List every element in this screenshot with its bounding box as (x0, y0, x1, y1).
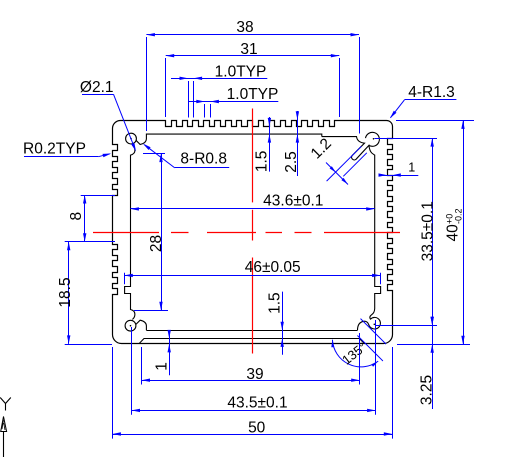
Y axis arrow (1, 417, 7, 432)
dimension 1.2 (diagonal slot width) (308, 135, 367, 184)
profile bottom inner floor line with corner chamfers (139, 339, 364, 344)
dimension 28 (134, 154, 168, 311)
screw boss hole top-right center mark (373, 138, 375, 140)
dimension 43.5±0.1 (hole centers) (132, 320, 376, 415)
dimension 1.5 (bottom platform) (267, 292, 284, 355)
Y axis stem (3, 432, 5, 457)
dimension 135° (chamfer angle) (331, 319, 386, 368)
dimension 38 (top) (146, 19, 359, 133)
svg-text:4-R1.3: 4-R1.3 (408, 84, 455, 101)
svg-text:39: 39 (246, 366, 263, 383)
svg-text:8-R0.8: 8-R0.8 (180, 151, 227, 168)
svg-text:1.0TYP: 1.0TYP (227, 86, 279, 103)
svg-text:-0.2: -0.2 (454, 208, 464, 224)
dimension 1 (right groove depth) (379, 161, 419, 177)
screw boss hole bottom-right center mark (374, 324, 376, 326)
profile bottom-left boss mouth lip and platform connection (136, 320, 147, 330)
profile bottom platform (PCB land) line (146, 330, 357, 332)
svg-text:18.5: 18.5 (57, 277, 74, 307)
dimension 18.5 (left lower) (57, 242, 112, 345)
screw boss hole bottom-left (125, 320, 136, 331)
dimension 1.5 (top wall) (254, 117, 272, 172)
dimension 43.6±0.1 (inner width) (130, 193, 374, 211)
top-right boss outline arc (366, 132, 380, 146)
svg-text:3.25: 3.25 (418, 375, 435, 405)
svg-text:43.5±0.1: 43.5±0.1 (227, 395, 287, 412)
label diameter 2.1 with leader to boss hole (80, 79, 136, 152)
dimension 46±0.05 (slot width) (124, 259, 380, 284)
profile bottom-right boss hook from platform (358, 321, 373, 330)
svg-text:40: 40 (445, 224, 462, 242)
svg-text:1.0TYP: 1.0TYP (215, 64, 267, 81)
dimension 39 (142, 333, 360, 385)
dimension 31 (166, 41, 340, 117)
svg-text:8: 8 (68, 212, 85, 221)
dimension 33.5±0.1 (right groove band) (375, 138, 438, 325)
svg-text:46±0.05: 46±0.05 (245, 259, 301, 276)
dimension 1.0TYP (groove width) (171, 64, 267, 118)
label 4-R1.3 with leader to top-right corner (390, 84, 457, 118)
vertical centerline (red) (252, 109, 254, 354)
dimension 1 (bottom wall) (153, 330, 171, 375)
dimension 8 (left plain band) (65, 195, 115, 242)
svg-text:33.5±0.1: 33.5±0.1 (419, 201, 436, 261)
label 8-R0.8 with leader to top-left boss (143, 144, 229, 168)
dimension 3.25 (bottom right) (418, 317, 435, 409)
dimension 40 +0/-0.2 (overall height) (396, 120, 474, 344)
svg-text:R0.2TYP: R0.2TYP (23, 141, 86, 158)
profile right inner wall with PCB slot and boss curves (322, 137, 381, 329)
svg-text:1: 1 (153, 362, 170, 371)
profile left inner wall with PCB slot and lower boss curve (125, 145, 135, 319)
horizontal centerline (red, dashed) (93, 232, 400, 234)
svg-text:50: 50 (248, 420, 266, 437)
Y axis label (0, 398, 11, 411)
svg-text:1.5: 1.5 (254, 151, 271, 173)
svg-text:43.6±0.1: 43.6±0.1 (263, 193, 323, 210)
svg-text:28: 28 (148, 235, 165, 252)
svg-text:2.5: 2.5 (283, 151, 300, 173)
svg-text:38: 38 (236, 19, 253, 36)
dimension 2.5 (tooth + wall) (283, 111, 300, 176)
svg-text:1.5: 1.5 (267, 292, 284, 314)
dimension 1.0TYP (tooth width) (189, 86, 278, 118)
profile top inner wall line with corner boss lands (136, 134, 322, 144)
label R0.2TYP with leader to left fins (23, 141, 111, 158)
screw boss hole top-left (126, 133, 137, 144)
svg-text:31: 31 (240, 41, 257, 58)
svg-text:1: 1 (408, 161, 415, 175)
profile outer outline (113, 121, 393, 344)
svg-text:Ø2.1: Ø2.1 (80, 79, 114, 96)
dimension 50 (overall width) (112, 347, 392, 439)
